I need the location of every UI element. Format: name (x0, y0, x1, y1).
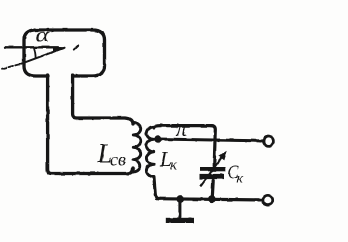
svg-text:к: к (170, 158, 178, 174)
svg-text:π: π (176, 116, 188, 141)
svg-text:α: α (36, 24, 51, 46)
svg-text:св: св (110, 150, 126, 170)
svg-text:к: к (236, 171, 243, 186)
